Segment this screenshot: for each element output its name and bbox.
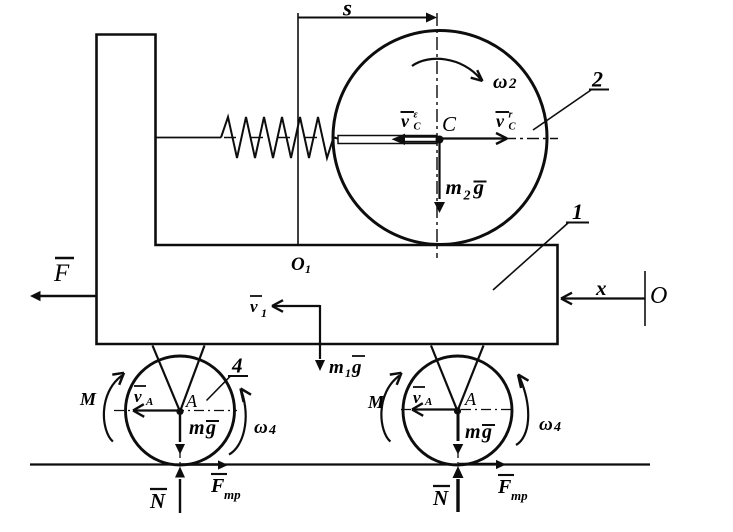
leader line for label 4 [207, 377, 231, 401]
wheel left axle dot A [176, 408, 183, 415]
svg-text:O: O [650, 283, 667, 309]
vector vA right [412, 408, 455, 410]
svg-text:F: F [210, 475, 225, 497]
vector F arrow [39, 295, 96, 297]
svg-text:r: r [509, 110, 513, 121]
svg-text:N: N [149, 489, 166, 513]
center C dot [436, 136, 444, 144]
svg-text:v: v [496, 111, 505, 131]
svg-text:v: v [413, 388, 421, 407]
svg-text:ω: ω [493, 71, 507, 93]
wheel left horizontal centerline [114, 410, 237, 412]
svg-text:1: 1 [572, 199, 583, 224]
wheel right horizontal centerline [401, 409, 514, 411]
vector m2g arrow [438, 140, 440, 200]
svg-text:1: 1 [261, 306, 267, 320]
spring axis dashed centerline [224, 137, 336, 139]
label vA right [413, 386, 425, 388]
wheel 4 right circle [403, 356, 512, 465]
spring attachment wire [156, 137, 222, 139]
disc 2 [333, 31, 547, 245]
label v_C^r [496, 111, 510, 113]
svg-text:4: 4 [231, 354, 243, 378]
cart body 1 outline [97, 35, 558, 345]
wheel right vertical centerline [457, 414, 459, 464]
svg-text:тр: тр [511, 488, 528, 503]
svg-text:M: M [79, 389, 97, 409]
friction force F_tr right [459, 463, 496, 465]
svg-text:F: F [53, 260, 70, 287]
rod slider [338, 136, 437, 144]
svg-text:g: g [205, 417, 216, 439]
disc 2 horizontal dash-dot centerline [504, 138, 558, 140]
svg-text:g: g [473, 175, 485, 199]
vector v_C^e bold arrow [403, 136, 437, 138]
dimension s arrow [298, 17, 428, 19]
wheel right axle dot A [454, 407, 461, 414]
spring [221, 117, 338, 158]
svg-text:C: C [442, 112, 457, 136]
svg-text:C: C [414, 122, 422, 133]
ground line [30, 463, 650, 465]
label N right [433, 485, 450, 487]
vector v1 arrow [272, 305, 320, 307]
svg-text:1: 1 [305, 262, 311, 276]
leader line for label 2 [533, 90, 591, 130]
svg-text:A: A [185, 391, 198, 411]
svg-text:N: N [432, 486, 449, 510]
svg-text:A: A [424, 396, 432, 408]
svg-text:4: 4 [553, 420, 561, 435]
svg-text:m: m [189, 417, 205, 439]
svg-text:1: 1 [345, 366, 351, 380]
wheel 4 left circle [126, 356, 235, 465]
svg-text:s: s [342, 0, 352, 21]
svg-text:m: m [329, 357, 344, 378]
label vA left [134, 385, 146, 387]
svg-text:v: v [401, 111, 410, 131]
omega2 curved arrow [412, 59, 481, 80]
svg-text:F: F [497, 476, 512, 498]
wheel left vertical centerline [179, 414, 181, 464]
label F [55, 257, 74, 260]
vector v_C^r arrow [441, 137, 507, 139]
omega4 arc left [229, 391, 246, 455]
wheel 4 right fork legs [431, 346, 484, 412]
svg-text:M: M [367, 392, 385, 412]
vector N left [179, 479, 181, 513]
disc 2 vertical dash-dot centerline [436, 13, 438, 258]
svg-text:тр: тр [224, 487, 241, 502]
dimension s vertical reference line [297, 13, 299, 245]
label v1 [250, 295, 262, 297]
svg-text:v: v [134, 387, 142, 406]
svg-text:g: g [351, 357, 362, 378]
origin O tick [644, 271, 646, 326]
moment M arc right [381, 376, 399, 442]
svg-text:O: O [291, 254, 305, 275]
svg-text:2: 2 [463, 189, 471, 204]
moment M arc left [104, 376, 122, 442]
svg-text:2: 2 [591, 67, 603, 92]
label F_tr left [211, 473, 227, 475]
svg-text:m: m [446, 175, 462, 199]
vector N right [456, 479, 459, 512]
svg-text:g: g [481, 421, 492, 443]
x axis arrow [561, 297, 645, 299]
svg-text:A: A [464, 389, 477, 409]
svg-text:2: 2 [508, 76, 517, 92]
friction force F_tr left [181, 463, 218, 465]
label v_C^e [401, 111, 415, 113]
svg-text:x: x [595, 276, 607, 300]
vector m1g arrowhead [315, 360, 325, 371]
svg-text:ω: ω [254, 417, 268, 438]
svg-text:C: C [509, 122, 517, 133]
svg-text:ω: ω [539, 414, 553, 435]
vector vA left [133, 409, 178, 411]
omega4 arc right [516, 377, 528, 445]
label F_tr right [498, 474, 514, 476]
svg-text:4: 4 [268, 423, 276, 438]
vector mg right [457, 413, 460, 441]
svg-text:m: m [465, 421, 481, 443]
vector mg left [179, 413, 181, 442]
svg-text:A: A [145, 396, 153, 408]
leader line for label 1 [493, 223, 568, 290]
svg-text:v: v [250, 297, 258, 316]
label N left [150, 488, 167, 490]
wheel 4 left fork legs [153, 346, 205, 412]
